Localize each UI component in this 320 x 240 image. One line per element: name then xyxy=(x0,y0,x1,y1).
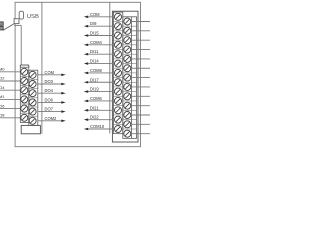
svg-text:DI21: DI21 xyxy=(90,105,99,110)
svg-text:DI22: DI22 xyxy=(90,115,99,120)
svg-text:COM10: COM10 xyxy=(90,124,105,129)
svg-text:COM2: COM2 xyxy=(45,116,58,121)
svg-text:DI9: DI9 xyxy=(90,21,97,26)
svg-text:M1: M1 xyxy=(0,94,5,99)
svg-text:DI11: DI11 xyxy=(90,49,99,54)
svg-text:DO7: DO7 xyxy=(45,107,54,112)
svg-text:O6: O6 xyxy=(0,103,5,108)
svg-text:DO6: DO6 xyxy=(45,97,54,102)
svg-text:DI14: DI14 xyxy=(90,59,99,64)
svg-text:M0: M0 xyxy=(0,67,5,72)
svg-text:COM4: COM4 xyxy=(90,40,103,45)
svg-text:COM8: COM8 xyxy=(90,68,103,73)
svg-text:O4: O4 xyxy=(0,85,5,90)
svg-text:COM: COM xyxy=(90,12,100,17)
svg-text:COM6: COM6 xyxy=(90,96,103,101)
svg-text:O8: O8 xyxy=(0,113,5,118)
svg-text:DI19: DI19 xyxy=(90,87,99,92)
svg-text:COM: COM xyxy=(45,70,55,75)
svg-text:DO3: DO3 xyxy=(45,79,54,84)
svg-text:DI15: DI15 xyxy=(90,31,99,36)
svg-text:DO4: DO4 xyxy=(45,88,54,93)
svg-text:DI17: DI17 xyxy=(90,77,99,82)
svg-text:USB: USB xyxy=(27,14,39,20)
svg-text:O2: O2 xyxy=(0,76,5,81)
